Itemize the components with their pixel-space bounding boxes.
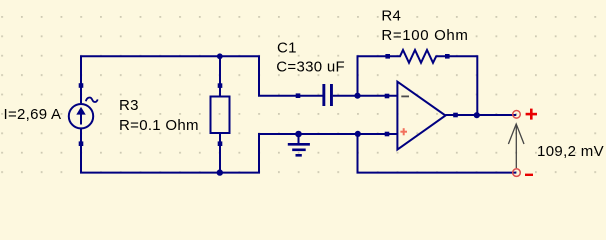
arrow (measurement) <box>508 124 524 168</box>
wire R3 top <box>219 56 221 96</box>
svg-text:R=0.1 Ohm: R=0.1 Ohm <box>119 117 199 134</box>
wire bottom rail left <box>81 128 397 173</box>
svg-text:C1: C1 <box>277 39 297 56</box>
pin label + (non-inverting input) <box>400 128 407 135</box>
junction ground <box>295 131 302 138</box>
svg-text:R4: R4 <box>381 8 401 25</box>
wire R4 right to feedback corner <box>447 56 477 115</box>
op-amp U1 <box>385 82 458 150</box>
capacitor C1 <box>296 84 333 106</box>
wire C1 right to op-amp minus <box>333 95 398 97</box>
junction C1 right <box>354 93 360 99</box>
resistor R3 <box>211 83 230 146</box>
junction R3 top <box>217 53 223 59</box>
output terminal plus <box>513 111 521 119</box>
svg-text:R=100 Ohm: R=100 Ohm <box>381 27 468 44</box>
svg-text:R3: R3 <box>119 97 139 114</box>
junction output <box>474 112 480 118</box>
output terminal minus <box>513 169 521 177</box>
label plus (red) <box>526 109 537 120</box>
svg-text:109,2 mV: 109,2 mV <box>537 143 604 160</box>
svg-text:I=2,69 A: I=2,69 A <box>4 106 62 123</box>
pin terminals <box>385 94 390 99</box>
wire mid T vertical and bottom rail right <box>358 134 517 173</box>
pin label - (inverting input) <box>401 95 409 97</box>
wire op-amp output <box>446 114 517 116</box>
resistor R4 <box>385 50 449 63</box>
wire R3 bottom <box>219 134 221 173</box>
current source I1 <box>69 83 98 146</box>
ground <box>288 134 310 155</box>
wire top rail left <box>81 56 323 105</box>
junction R3 bottom <box>217 169 223 175</box>
wire C1 junction up <box>358 56 388 95</box>
svg-text:C=330 uF: C=330 uF <box>276 58 345 75</box>
label minus (red) <box>525 174 533 176</box>
junction mid T <box>355 131 361 137</box>
